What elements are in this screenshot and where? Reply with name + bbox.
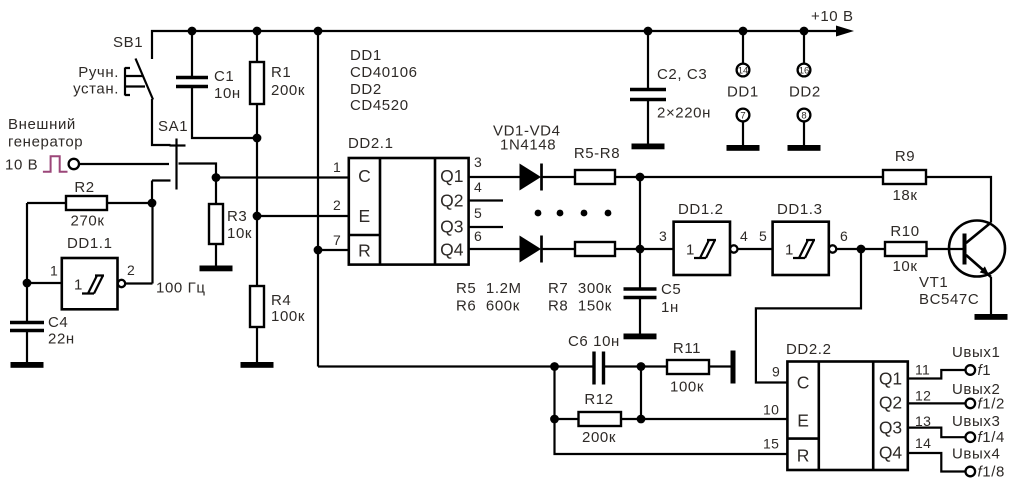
svg-text:R2: R2	[74, 179, 94, 196]
svg-text:2×220н: 2×220н	[657, 105, 711, 122]
svg-text:R7 300к: R7 300к	[548, 280, 612, 297]
svg-text:11: 11	[915, 362, 930, 378]
svg-text:Q1: Q1	[879, 369, 902, 389]
svg-text:Q4: Q4	[440, 240, 464, 260]
svg-text:VT1: VT1	[919, 274, 948, 291]
svg-text:Q4: Q4	[879, 443, 903, 463]
svg-text:1: 1	[785, 242, 794, 259]
svg-text:16: 16	[799, 65, 810, 76]
svg-text:1N4148: 1N4148	[500, 137, 556, 154]
svg-text:BC547C: BC547C	[919, 291, 979, 308]
svg-text:Uвых1: Uвых1	[952, 344, 1000, 361]
svg-text:C1: C1	[214, 68, 234, 85]
svg-text:R8 150к: R8 150к	[548, 298, 612, 315]
svg-text:DD2.2: DD2.2	[786, 341, 832, 358]
svg-text:3: 3	[474, 154, 482, 170]
svg-text:R3: R3	[227, 208, 247, 225]
svg-text:1: 1	[333, 159, 341, 175]
svg-text:1: 1	[686, 242, 695, 259]
svg-text:Uвых4: Uвых4	[952, 446, 1000, 463]
svg-text:10н: 10н	[214, 85, 241, 102]
svg-text:f1/4: f1/4	[978, 429, 1005, 446]
svg-text:100 Гц: 100 Гц	[156, 280, 206, 297]
svg-text:DD1: DD1	[727, 84, 759, 101]
svg-text:R4: R4	[271, 292, 291, 309]
svg-text:CD40106: CD40106	[350, 64, 418, 81]
svg-text:f1: f1	[978, 362, 992, 379]
svg-text:7: 7	[333, 232, 341, 248]
svg-text:13: 13	[915, 413, 931, 429]
svg-text:DD2: DD2	[789, 84, 821, 101]
svg-text:R: R	[797, 446, 810, 466]
svg-text:E: E	[797, 411, 809, 431]
svg-text:R10: R10	[890, 223, 919, 240]
svg-text:R5 1.2M: R5 1.2M	[456, 280, 522, 297]
svg-text:18к: 18к	[892, 187, 917, 204]
svg-text:100к: 100к	[670, 379, 704, 396]
svg-text:C5: C5	[661, 281, 681, 298]
svg-text:C2, C3: C2, C3	[657, 66, 707, 83]
svg-text:C6 10н: C6 10н	[568, 333, 620, 350]
svg-text:10 В: 10 В	[5, 157, 38, 174]
svg-text:100к: 100к	[271, 308, 305, 325]
svg-text:E: E	[359, 206, 371, 226]
svg-text:1: 1	[74, 277, 83, 294]
svg-text:10к: 10к	[227, 225, 252, 242]
svg-text:10к: 10к	[892, 258, 917, 275]
svg-text:R6 600к: R6 600к	[456, 298, 520, 315]
svg-text:Q3: Q3	[440, 217, 463, 237]
svg-text:22н: 22н	[48, 331, 75, 348]
svg-text:R1: R1	[271, 64, 291, 81]
svg-text:Внешний: Внешний	[8, 116, 76, 133]
svg-text:12: 12	[915, 388, 931, 404]
svg-text:R9: R9	[895, 148, 915, 165]
svg-text:4: 4	[474, 179, 482, 195]
svg-text:генератор: генератор	[8, 134, 83, 151]
svg-text:Uвых3: Uвых3	[952, 413, 1000, 430]
svg-text:DD1.1: DD1.1	[67, 235, 113, 252]
svg-text:270к: 270к	[71, 213, 105, 230]
svg-text:14: 14	[738, 65, 749, 76]
svg-text:SA1: SA1	[158, 118, 188, 135]
svg-text:7: 7	[740, 110, 745, 121]
svg-text:Q2: Q2	[440, 191, 463, 211]
svg-text:DD1.3: DD1.3	[777, 201, 823, 218]
svg-text:3: 3	[659, 228, 667, 244]
svg-text:f1/8: f1/8	[978, 464, 1005, 481]
svg-text:DD1: DD1	[350, 47, 382, 64]
svg-text:DD1.2: DD1.2	[678, 201, 724, 218]
svg-text:DD2: DD2	[350, 81, 382, 98]
svg-text:4: 4	[740, 228, 748, 244]
svg-text:200к: 200к	[582, 429, 616, 446]
svg-text:f1/2: f1/2	[978, 395, 1005, 412]
svg-text:200к: 200к	[271, 82, 305, 99]
svg-text:15: 15	[763, 436, 779, 452]
svg-text:R12: R12	[584, 391, 613, 408]
svg-text:устан.: устан.	[73, 81, 119, 98]
svg-text:2: 2	[333, 197, 341, 213]
svg-text:R5-R8: R5-R8	[574, 145, 620, 162]
svg-text:CD4520: CD4520	[350, 97, 409, 114]
svg-text:R11: R11	[673, 340, 701, 357]
svg-text:C: C	[358, 166, 371, 186]
svg-text:Q2: Q2	[879, 393, 902, 413]
svg-text:1: 1	[50, 263, 58, 279]
svg-text:9: 9	[772, 364, 780, 380]
svg-text:10: 10	[763, 402, 779, 418]
svg-text:Q1: Q1	[440, 166, 463, 186]
svg-text:R: R	[358, 241, 371, 261]
svg-text:C: C	[797, 373, 810, 393]
svg-text:6: 6	[840, 228, 848, 244]
svg-text:SB1: SB1	[113, 34, 143, 51]
svg-text:2: 2	[127, 262, 135, 278]
svg-text:6: 6	[474, 228, 482, 244]
svg-text:+10 В: +10 В	[811, 8, 854, 25]
svg-text:C4: C4	[48, 314, 68, 331]
svg-text:Q3: Q3	[879, 418, 902, 438]
svg-text:1н: 1н	[661, 299, 679, 316]
svg-text:Ручн.: Ручн.	[78, 64, 119, 81]
svg-text:8: 8	[801, 110, 806, 121]
svg-text:5: 5	[759, 228, 767, 244]
svg-text:14: 14	[915, 435, 931, 451]
svg-text:DD2.1: DD2.1	[348, 135, 394, 152]
svg-text:5: 5	[474, 205, 482, 221]
